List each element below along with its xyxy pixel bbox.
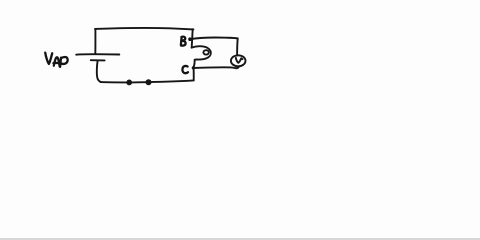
wire top horizontal <box>95 28 193 29</box>
junction dot J1 <box>126 80 132 86</box>
wire node B to voltmeter top <box>191 38 238 40</box>
wire bottom horizontal <box>101 80 194 82</box>
wire stub element down to node C <box>194 60 195 67</box>
wire right vertical down to node B <box>191 29 194 39</box>
wire voltmeter top vertical <box>236 38 239 55</box>
label node C <box>182 66 188 73</box>
node C dot <box>192 66 195 69</box>
label VAP letter P <box>60 57 68 67</box>
wire battery top lead vertical <box>94 29 96 54</box>
element curl (lamp) between B and C <box>192 46 211 60</box>
battery VAP short plate <box>91 59 105 61</box>
element curl eye <box>203 50 208 54</box>
junction dot J2 <box>146 79 152 85</box>
label VAP letter V <box>45 53 52 64</box>
wire stub node B down to element <box>191 39 194 48</box>
voltmeter V letter <box>236 58 243 63</box>
wire battery bottom lead <box>97 61 101 83</box>
wire voltmeter bottom to node C <box>194 66 240 68</box>
label node B <box>181 37 186 46</box>
node B dot <box>188 37 192 41</box>
label VAP letter A <box>53 57 60 66</box>
wire bottom-right vertical up to node C <box>193 68 195 80</box>
voltmeter V1 circle <box>231 55 246 66</box>
battery VAP long plate <box>76 53 119 56</box>
faint bottom border line <box>0 238 480 240</box>
